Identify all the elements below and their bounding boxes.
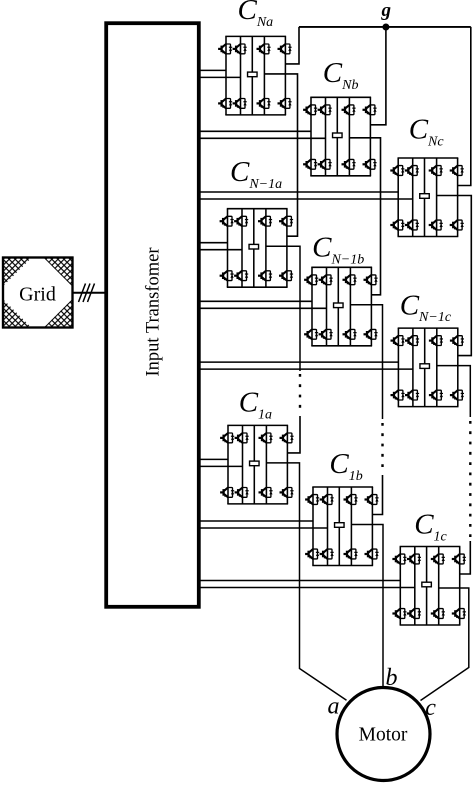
wire: C_N1a down (solid) <box>266 246 300 371</box>
dc-link capacitor of cell C_1b <box>335 523 345 528</box>
dc-link capacitor of cell C_N1b <box>334 303 344 308</box>
svg-text:c: c <box>425 695 436 721</box>
wires: transformer secondary to cell C_Na <box>198 70 241 77</box>
dc-link capacitor of cell C_N1c <box>420 364 430 369</box>
wires: transformer secondary to cell C_N1b <box>198 301 327 308</box>
svg-text:g: g <box>381 0 392 21</box>
dc-link capacitor of cell C_N1a <box>249 244 258 249</box>
svg-text:Motor: Motor <box>359 725 408 746</box>
IGBT/diode switches of cell C_1b <box>305 495 379 559</box>
wire: C_Nb to C_N1b series link <box>349 138 380 295</box>
power cell C_N1c (H-bridge with rectifier legs) <box>398 328 459 407</box>
dotted continuation phase a <box>299 374 301 412</box>
power cell C_Nb (H-bridge with rectifier legs) <box>310 97 371 176</box>
svg-text:a: a <box>328 694 340 720</box>
wires: transformer secondary to cell C_1c <box>198 581 415 588</box>
wires: transformer secondary to cell C_1b <box>198 521 328 528</box>
node g bus (top) <box>299 26 471 28</box>
dc-link capacitor of cell C_Nc <box>420 194 430 199</box>
wires: transformer secondary to cell C_1a <box>198 459 243 466</box>
wire: C_1c to motor phase c <box>421 588 469 701</box>
grid source box <box>3 258 73 328</box>
input transformer box <box>106 23 199 607</box>
wires: transformer secondary to cell C_Nc <box>198 192 413 199</box>
wire: dotted to C_1c input <box>460 541 471 574</box>
IGBT/diode switches of cell C_Nb <box>303 105 377 169</box>
dc-link capacitor of cell C_1c <box>422 582 432 587</box>
power cell C_N1b (H-bridge with rectifier legs) <box>311 267 372 346</box>
wire: C_N1c down (solid) <box>437 366 471 417</box>
wire: C_1a to motor phase a <box>266 463 346 700</box>
wires: transformer secondary to cell C_N1a <box>198 243 242 250</box>
IGBT/diode switches of cell C_1c <box>392 554 466 618</box>
wire: grid to input transformer (3-phase) <box>73 284 106 303</box>
svg-text:Input Transfomer: Input Transfomer <box>144 248 164 377</box>
power cell C_1b (H-bridge with rectifier legs) <box>312 487 373 566</box>
motor <box>337 688 430 781</box>
wires: transformer secondary to cell C_Nb <box>198 131 326 138</box>
IGBT/diode switches of cell C_Na <box>218 44 292 108</box>
wire: g bus down to cell C_Na output <box>285 27 299 64</box>
svg-text:b: b <box>386 665 398 691</box>
wire: g node down to cell C_Nb output <box>370 27 386 125</box>
wire: C_1b to motor phase b <box>351 525 383 688</box>
IGBT/diode switches of cell C_N1c <box>391 336 465 400</box>
wire: dotted to C_1a input <box>287 416 300 453</box>
IGBT/diode switches of cell C_N1a <box>220 216 294 280</box>
junction dot at node g <box>382 24 389 31</box>
svg-text:Grid: Grid <box>19 284 56 306</box>
power cell C_Nc (H-bridge with rectifier legs) <box>398 158 459 237</box>
dc-link capacitor of cell C_Nb <box>333 133 343 138</box>
power cell C_1a (H-bridge with rectifier legs) <box>227 425 288 504</box>
IGBT/diode switches of cell C_1a <box>220 433 294 497</box>
wire: dotted to C_1b input <box>372 475 382 515</box>
IGBT/diode switches of cell C_Nc <box>390 166 464 230</box>
dc-link capacitor of cell C_Na <box>248 72 257 77</box>
dotted continuation phase c <box>469 421 471 537</box>
wire: C_Nc to C_N1c series link <box>437 196 472 356</box>
wires: transformer secondary to cell C_N1c <box>198 362 413 369</box>
power cell C_Na (H-bridge with rectifier legs) <box>225 36 286 115</box>
wire: g bus down to cell C_Nc output <box>458 27 471 186</box>
three-phase slash marks <box>79 284 95 303</box>
wire: C_N1b down (solid) <box>350 305 382 419</box>
wire: C_Na to C_N1a series link <box>264 74 297 236</box>
dotted continuation phase b <box>381 423 383 471</box>
dc-link capacitor of cell C_1a <box>250 461 259 466</box>
IGBT/diode switches of cell C_N1b <box>304 275 378 339</box>
power cell C_1c (H-bridge with rectifier legs) <box>400 547 461 626</box>
power cell C_N1a (H-bridge with rectifier legs) <box>227 209 288 288</box>
